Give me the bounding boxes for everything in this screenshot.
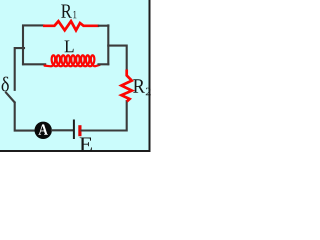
label delta (switch) (2, 77, 9, 92)
resistor R1 (43, 21, 99, 30)
resistor R2 (121, 70, 131, 102)
inductor L (45, 55, 100, 66)
label E (80, 138, 92, 152)
wire: L branch left lead (23, 63, 45, 65)
wire: L branch right lead (99, 63, 109, 65)
battery long plate (73, 120, 75, 140)
wire: left tap stub and upper switch lead (15, 48, 24, 90)
wire: switch lower lead down to bottom corner (15, 103, 35, 131)
wire: parallel box left side and top-left segment (23, 25, 43, 64)
wire: R1 right lead to corner (99, 25, 109, 27)
label R2 (133, 79, 145, 93)
frame bottom edge (0, 150, 151, 152)
wire: battery to bottom-right corner and up to R2 (82, 101, 127, 131)
battery short plate (red) (78, 125, 81, 136)
wire: ammeter to battery (52, 129, 73, 131)
switch blade (5, 92, 15, 103)
wire: parallel box right side (107, 25, 109, 64)
wire: right tap from box to R2 top (108, 46, 126, 71)
label R1 (61, 5, 72, 18)
frame right edge (149, 0, 151, 151)
ammeter A (35, 122, 52, 139)
label L (65, 41, 74, 53)
